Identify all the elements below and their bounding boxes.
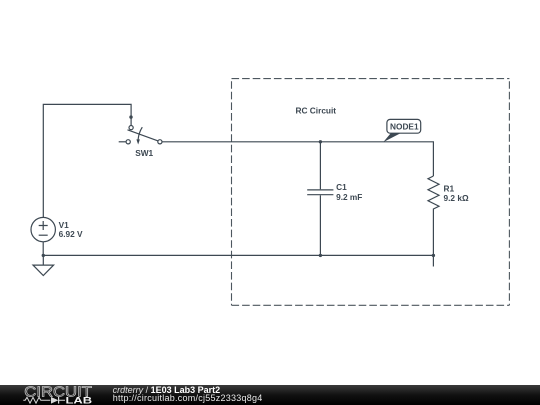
svg-text:http://circuitlab.com/cj55z233: http://circuitlab.com/cj55z2333q8g4 bbox=[113, 393, 263, 403]
svg-text:NODE1: NODE1 bbox=[390, 121, 419, 131]
svg-text:6.92 V: 6.92 V bbox=[59, 229, 83, 239]
svg-text:LAB: LAB bbox=[66, 396, 93, 405]
svg-text:9.2 mF: 9.2 mF bbox=[336, 192, 362, 202]
svg-text:C1: C1 bbox=[336, 182, 347, 192]
svg-text:RC Circuit: RC Circuit bbox=[296, 105, 337, 115]
svg-text:SW1: SW1 bbox=[135, 148, 153, 158]
svg-text:9.2 kΩ: 9.2 kΩ bbox=[444, 193, 469, 203]
